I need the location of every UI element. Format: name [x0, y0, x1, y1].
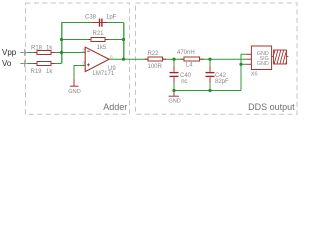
- svg-text:1k5: 1k5: [97, 45, 107, 51]
- svg-text:R21: R21: [93, 31, 105, 37]
- svg-text:100R: 100R: [148, 64, 163, 70]
- svg-text:R22: R22: [148, 51, 160, 57]
- svg-text:L4: L4: [186, 62, 193, 68]
- svg-text:Vo: Vo: [2, 59, 12, 68]
- svg-text:1k: 1k: [46, 46, 53, 52]
- svg-text:GND: GND: [68, 89, 80, 95]
- svg-text:C38: C38: [85, 14, 97, 20]
- svg-text:GND: GND: [257, 61, 269, 67]
- svg-text:Adder: Adder: [103, 102, 127, 112]
- svg-text:R19: R19: [31, 69, 43, 75]
- svg-text:LM7171: LM7171: [93, 71, 115, 77]
- svg-text:1pF: 1pF: [106, 14, 117, 20]
- svg-text:DDS output: DDS output: [248, 102, 295, 112]
- svg-text:1k: 1k: [46, 69, 53, 75]
- svg-text:470nH: 470nH: [177, 50, 195, 56]
- svg-text:X6: X6: [251, 71, 258, 77]
- svg-text:Vpp: Vpp: [2, 48, 17, 57]
- svg-text:R18: R18: [31, 46, 43, 52]
- svg-text:GND: GND: [168, 99, 180, 105]
- svg-text:82pF: 82pF: [215, 79, 229, 85]
- svg-text:nc: nc: [181, 79, 187, 85]
